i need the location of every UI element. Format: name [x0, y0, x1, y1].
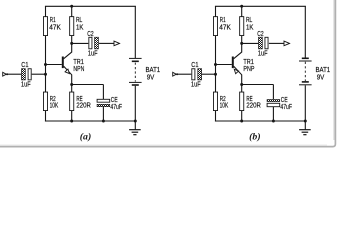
node: C1 tap on divider rail (a) — [44, 73, 47, 76]
transistor TR1 (a) emitter lead — [64, 66, 72, 84]
svg-text:PNP: PNP — [243, 64, 254, 73]
wire: CE top lead (a) — [102, 85, 104, 100]
wire: C2 to output terminal (b) — [269, 42, 284, 44]
wire: input lead to C1 (a) — [7, 73, 21, 75]
resistor RE (b) 220R body — [240, 92, 244, 111]
wire: RL bottom lead to collector node (a) — [71, 36, 73, 44]
wire: emitter to RE (b) — [241, 85, 243, 93]
wire: bottom ground rail (b) — [215, 120, 306, 122]
page background — [0, 0, 338, 149]
transistor TR1 (a) NPN emitter arrow — [65, 69, 69, 73]
node: junction of RL with top rail (b) — [240, 5, 243, 8]
page border: bottom light inner line — [0, 144, 327, 146]
wire: CE bottom lead (b) — [272, 107, 274, 121]
wire: divider rail below R2 (b) — [215, 111, 217, 122]
capacitor C1 (b) 1uF plates — [192, 69, 195, 80]
wire: collector node to C2 (b) — [242, 42, 259, 44]
svg-text:C1: C1 — [21, 60, 28, 69]
wire: C2 to output terminal (a) — [99, 42, 114, 44]
svg-text:1uF: 1uF — [21, 80, 31, 89]
wire: emitter node across to CE (a) — [72, 84, 104, 86]
wire: C1 to divider rail (a) — [32, 73, 46, 75]
node: RE on bottom rail (a) — [70, 120, 73, 123]
svg-text:(b): (b) — [249, 132, 260, 143]
capacitor C2 (a) 1uF plates — [89, 37, 92, 49]
page border: right edge soft shadow — [333, 0, 335, 140]
svg-text:1K: 1K — [76, 22, 84, 31]
output terminal arrow (b) — [284, 41, 290, 46]
svg-text:10K: 10K — [50, 101, 59, 110]
output terminal arrow (a) — [114, 41, 120, 46]
transistor TR1 (a) base bar — [62, 57, 64, 69]
svg-text:10K: 10K — [220, 101, 229, 110]
transistor TR1 (b) collector lead — [234, 43, 242, 58]
transistor TR1 (b) emitter lead — [234, 66, 242, 84]
capacitor CE (a) 47uF plates — [97, 99, 110, 102]
svg-text:47uF: 47uF — [110, 102, 122, 111]
transistor TR1 (a) collector lead — [64, 43, 72, 58]
wire: RE bottom lead (a) — [71, 111, 73, 121]
svg-text:9V: 9V — [317, 72, 325, 81]
wire: CE top lead (b) — [272, 85, 274, 100]
ground symbol (a) — [134, 121, 136, 130]
transistor TR1 (b) base bar — [232, 57, 234, 69]
wire: divider rail between R1 and R2 (b) — [215, 36, 217, 93]
battery BAT1 (a) 9V — [134, 6, 136, 58]
node: base tap on divider rail (b) — [214, 63, 217, 66]
wire: RL top lead (a) — [71, 6, 73, 16]
svg-text:C2: C2 — [257, 29, 263, 38]
svg-text:C1: C1 — [191, 60, 198, 69]
node: emitter junction (b) — [240, 83, 243, 86]
input terminal arrow (b) — [173, 72, 177, 76]
svg-text:(a): (a) — [80, 132, 91, 143]
wire: emitter to RE (a) — [71, 85, 73, 93]
resistor RE (a) 220R body — [70, 92, 74, 111]
capacitor CE (b) 47uF plates — [267, 100, 280, 102]
svg-text:220R: 220R — [246, 101, 260, 110]
wire: divider rail top segment above R1 (a) — [45, 6, 47, 16]
input terminal arrow (a) — [3, 72, 7, 76]
wire: emitter node across to CE (b) — [242, 84, 274, 86]
wire: divider rail between R1 and R2 (a) — [45, 36, 47, 93]
svg-text:47uF: 47uF — [280, 102, 292, 111]
wire: input lead to C1 (b) — [177, 73, 191, 75]
capacitor C1 (a) 1uF plates — [22, 69, 26, 80]
node: C1 tap on divider rail (b) — [214, 73, 217, 76]
node: junction of RL with top rail (a) — [70, 5, 73, 8]
battery BAT1 (b) 9V — [304, 6, 306, 57]
wire: CE bottom lead (a) — [102, 107, 104, 121]
svg-text:1uF: 1uF — [88, 48, 98, 57]
wire: top supply rail (a) — [45, 5, 136, 7]
svg-text:47K: 47K — [49, 22, 61, 31]
resistor RL (a) 1K body — [70, 17, 74, 36]
wire: C1 to divider rail (b) — [202, 73, 216, 75]
resistor R1 (a) 47K body — [43, 17, 47, 36]
node: battery on bottom rail (b) — [304, 120, 307, 123]
resistor R2 (a) 10K body — [43, 92, 47, 111]
wire: bottom ground rail (a) — [45, 120, 136, 122]
wire: collector node to C2 (a) — [72, 42, 89, 44]
capacitor C2 (b) 1uF plates — [259, 37, 263, 49]
ground symbol (b) — [304, 121, 306, 130]
node: RE on bottom rail (b) — [240, 120, 243, 123]
svg-text:220R: 220R — [76, 101, 90, 110]
wire: RL top lead (b) — [241, 6, 243, 16]
wire: divider rail top segment above R1 (b) — [215, 6, 217, 16]
transistor TR1 (b) PNP emitter arrow — [234, 69, 238, 73]
svg-text:9V: 9V — [147, 72, 155, 81]
node: collector junction (b) — [240, 42, 243, 45]
wire: base lead (b) — [216, 64, 232, 66]
page border: right and bottom rounded card edge — [0, 0, 335, 147]
wire: top supply rail (b) — [215, 5, 306, 7]
svg-text:1K: 1K — [246, 22, 254, 31]
wire: divider rail below R2 (a) — [45, 111, 47, 122]
node: collector junction (a) — [70, 42, 73, 45]
node: battery on bottom rail (a) — [134, 120, 137, 123]
svg-text:47K: 47K — [219, 22, 231, 31]
svg-text:NPN: NPN — [73, 64, 84, 73]
node: CE on bottom rail (b) — [272, 120, 275, 123]
wire: RL bottom lead to collector node (b) — [241, 36, 243, 44]
svg-text:1uF: 1uF — [191, 80, 201, 89]
node: CE on bottom rail (a) — [102, 120, 105, 123]
wire: base lead (a) — [46, 64, 62, 66]
node: base tap on divider rail (a) — [44, 63, 47, 66]
svg-text:C2: C2 — [87, 29, 93, 38]
resistor R1 (b) 47K body — [213, 17, 217, 36]
resistor R2 (b) 10K body — [213, 92, 217, 111]
node: emitter junction (a) — [70, 83, 73, 86]
wire: RE bottom lead (b) — [241, 111, 243, 121]
svg-text:1uF: 1uF — [258, 48, 268, 57]
resistor RL (b) 1K body — [240, 17, 244, 36]
